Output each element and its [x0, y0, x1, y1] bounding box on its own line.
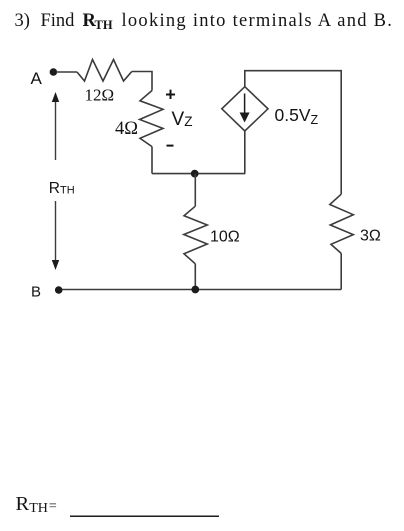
wire: bottom node wire from B to right branch: [59, 289, 342, 291]
wire: 3-ohm bottom down to bottom wire: [340, 253, 342, 289]
dependent source U1 0.5Vz (diamond): [222, 87, 268, 131]
dependent source arrow (down): [244, 94, 246, 114]
svg-text:Find: Find: [41, 11, 76, 31]
resistor R 12ohm (horizontal zigzag): [77, 60, 132, 82]
svg-text:10Ω: 10Ω: [210, 228, 240, 245]
svg-text:+: +: [165, 85, 176, 105]
node B terminal dot: [55, 286, 63, 294]
resistor R 10ohm (vertical zigzag): [184, 206, 208, 264]
svg-text:4Ω: 4Ω: [115, 119, 138, 139]
RTH measurement arrow down: [55, 201, 57, 266]
wire: A dot to 12-ohm resistor: [56, 71, 77, 73]
wire: 10-ohm bottom to bottom wire: [194, 264, 196, 290]
wire: middle horizontal node wire: [152, 173, 245, 175]
title: problem statement: [15, 11, 394, 32]
wire: diamond bottom down to middle node wire: [244, 131, 246, 174]
resistor R 4ohm (vertical zigzag): [140, 91, 163, 147]
svg-text:12Ω: 12Ω: [85, 86, 115, 105]
wire: junction down to 10-ohm: [194, 174, 196, 207]
RTH measurement arrow up: [55, 96, 57, 160]
svg-text:TH: TH: [95, 18, 113, 32]
wire: 12-ohm to top-right corner, down to 4-ohm: [132, 72, 152, 91]
node A terminal dot: [50, 68, 58, 76]
wire: diamond top up and across to right branch: [245, 71, 341, 195]
svg-text:3): 3): [15, 11, 30, 31]
resistor R 3ohm (vertical zigzag): [330, 194, 354, 253]
svg-text:A: A: [31, 69, 43, 88]
polarity minus for Vz: [167, 145, 174, 147]
svg-text:looking into terminals A and B: looking into terminals A and B.: [122, 11, 394, 31]
wire: 4-ohm bottom down to middle node wire: [151, 147, 153, 174]
svg-text:B: B: [31, 284, 41, 301]
junction dot middle node: [191, 170, 199, 178]
svg-text:3Ω: 3Ω: [360, 228, 381, 245]
answer blank underline: [70, 515, 219, 517]
junction dot bottom node: [191, 286, 199, 294]
